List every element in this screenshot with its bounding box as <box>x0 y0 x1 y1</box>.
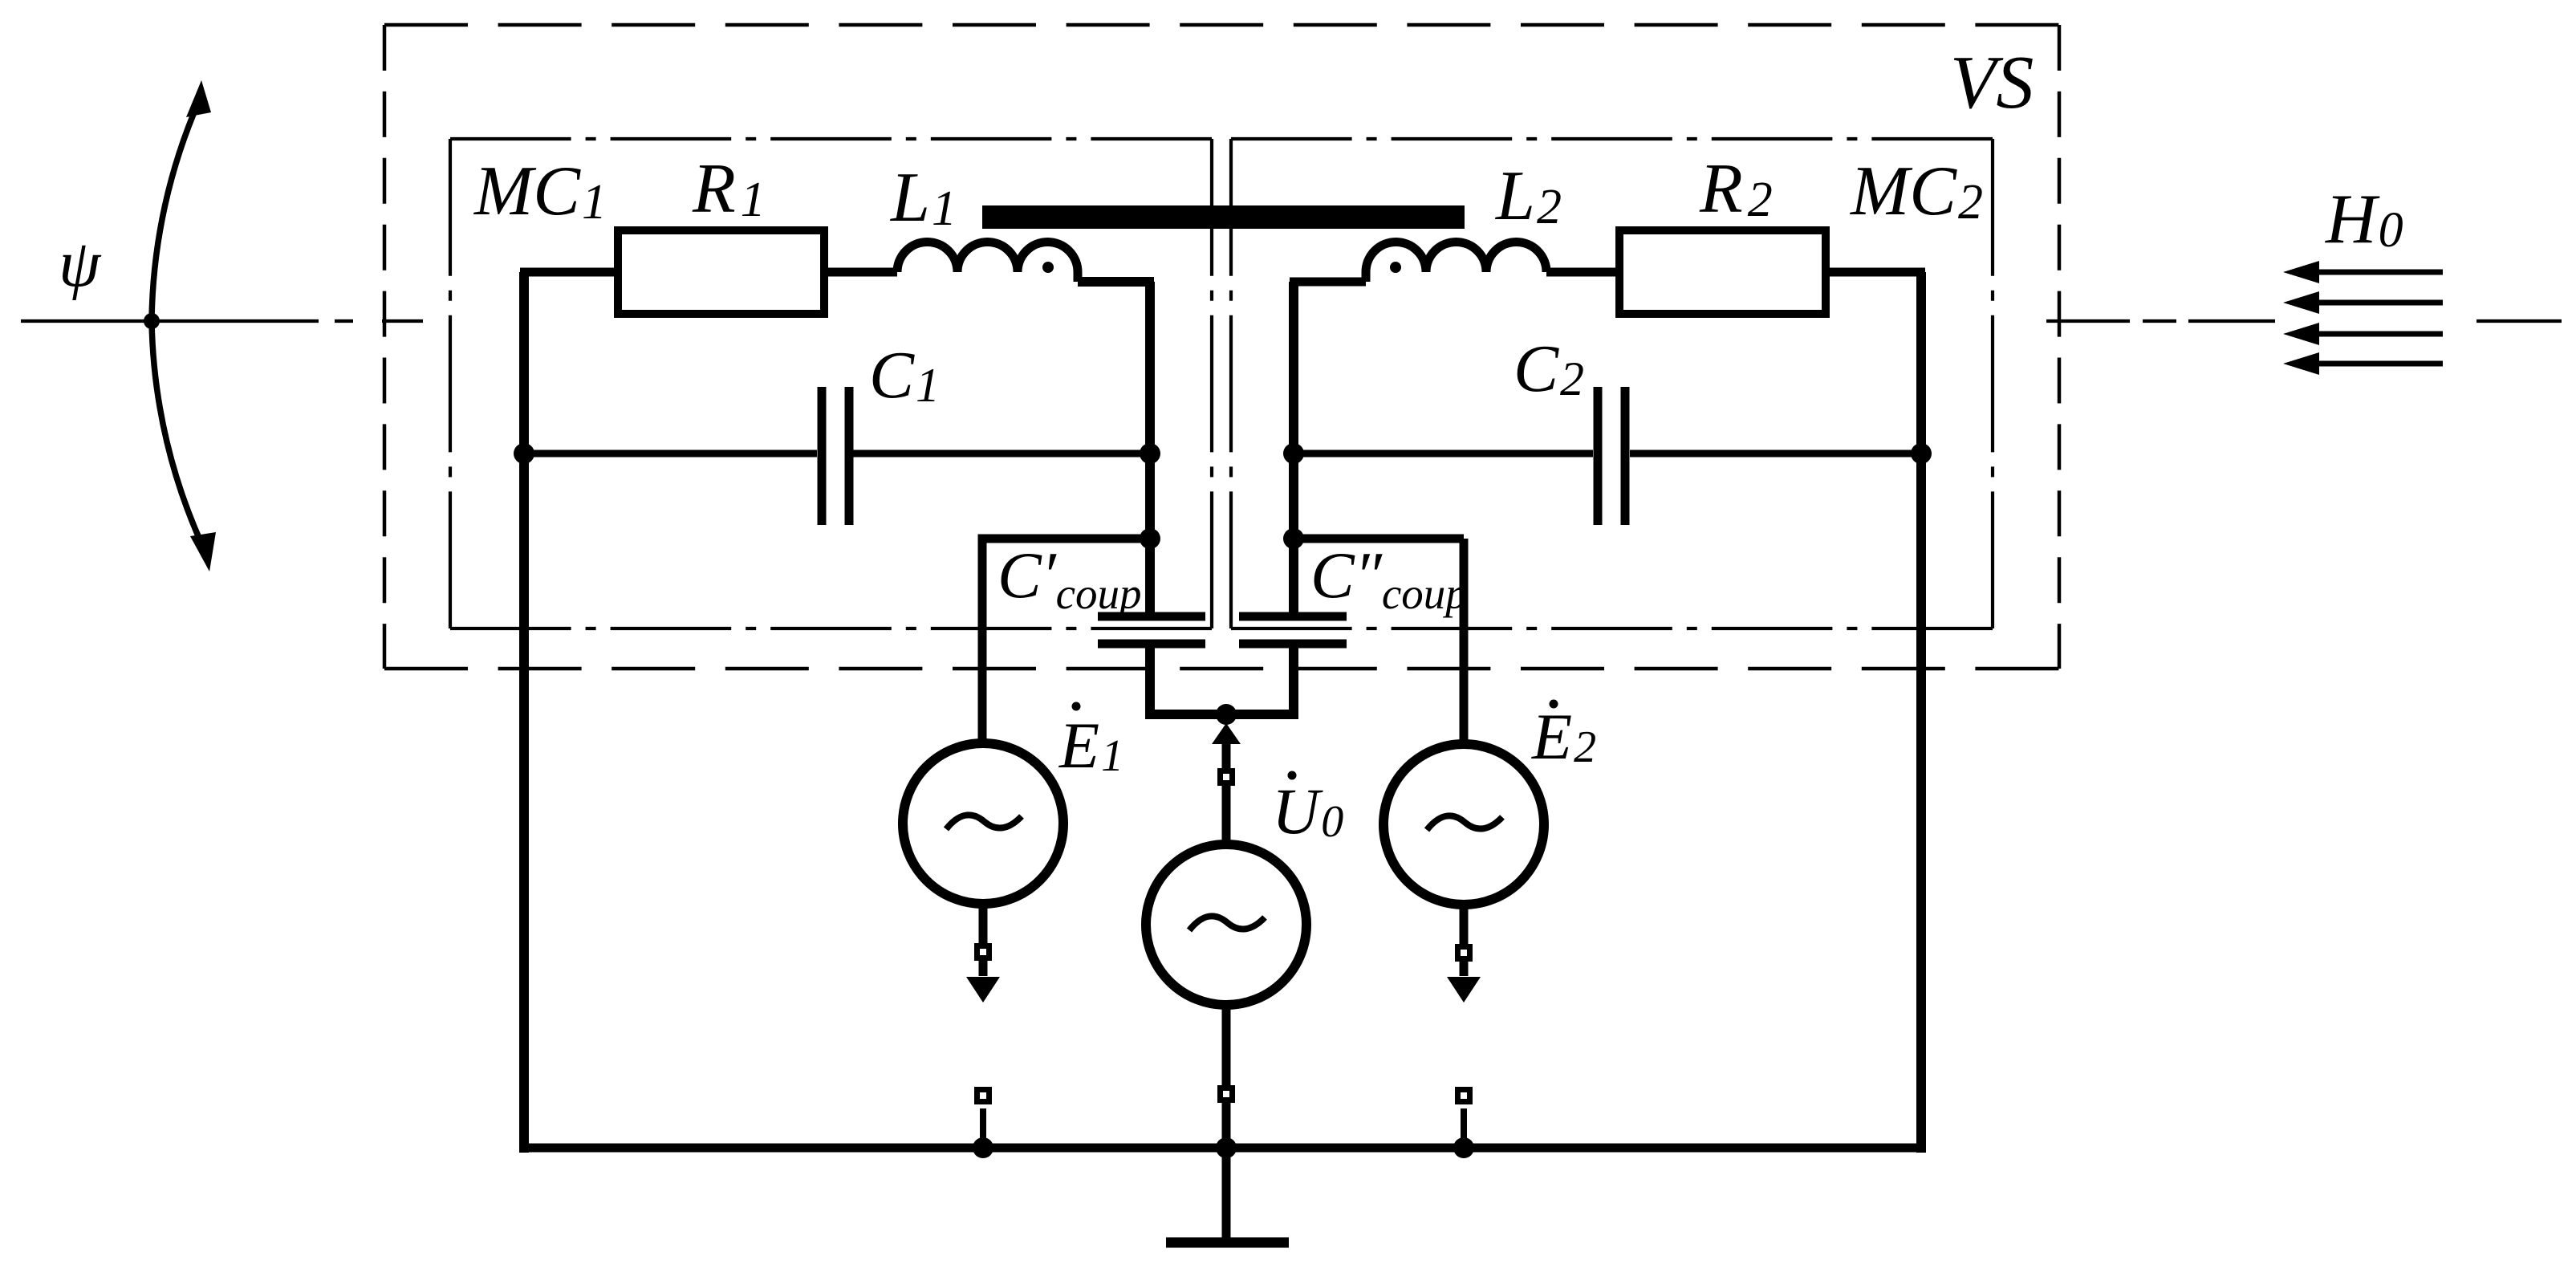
E2 top lead <box>1460 539 1469 744</box>
capacitor C'coup <box>1098 616 1205 644</box>
capacitor C2 <box>1294 450 1921 458</box>
psi arrow heads <box>186 80 216 571</box>
coupling bar (rotor plate) <box>982 205 1465 229</box>
MC2 dash-dot box <box>1231 139 1993 628</box>
wire: L2 to R2 <box>1546 268 1619 277</box>
wire: center vertical from L2 <box>1289 282 1298 617</box>
svg-text:VS: VS <box>1950 41 2034 124</box>
capacitor C''coup <box>1239 616 1347 644</box>
U0 top lead with arrow to junction <box>1222 732 1231 844</box>
psi curved double arrow <box>152 96 207 555</box>
wire: top-left horizontal to R1 <box>520 268 618 277</box>
resistor R1 <box>618 230 824 314</box>
VS dashed enclosure box <box>384 25 2059 669</box>
wire: left outer vertical <box>519 272 529 1153</box>
E1 bottom lead with connector and arrow <box>979 904 988 976</box>
wire: R1 to L1 <box>824 268 897 277</box>
bottom rail wire <box>519 1144 1926 1153</box>
MC1 dash-dot box <box>450 139 1212 628</box>
ground <box>1222 1148 1231 1238</box>
capacitor C1 <box>524 450 1150 458</box>
wire: R2 to right outer wire <box>1826 268 1925 277</box>
L1 polarity dot <box>1042 262 1054 273</box>
L2 polarity dot <box>1390 262 1401 273</box>
U0 bottom lead <box>1222 1005 1231 1148</box>
source U0 <box>1146 844 1306 1005</box>
node: center junction above U0 <box>1216 704 1237 725</box>
source E1 <box>903 743 1063 904</box>
E2 bottom lead with connector and arrow <box>1460 905 1469 976</box>
resistor R2 <box>1619 230 1826 314</box>
H0 arrow heads <box>2283 261 2319 375</box>
wire: branch junction to E1 <box>982 539 1150 739</box>
node dots right circuit <box>1283 443 1304 464</box>
E2 rail connector square <box>1458 1090 1470 1102</box>
node dots on rail <box>973 1137 993 1158</box>
svg-text:ψ: ψ <box>59 226 102 301</box>
H0 field arrows <box>2315 272 2443 364</box>
wire: branch junction to E2 <box>1294 535 1464 543</box>
inductor L2 <box>1366 242 1546 283</box>
wire: L1 to down wire <box>1078 282 1154 617</box>
source E2 <box>1383 744 1544 905</box>
E1 top lead <box>979 739 988 743</box>
node: axis pivot dot <box>144 313 160 329</box>
wire: right outer vertical <box>1916 272 1926 1153</box>
node dots left circuit <box>514 443 534 464</box>
E1 rail connector square <box>977 1090 989 1102</box>
horizontal rotation axis dash line <box>21 319 2562 323</box>
inductor L1 <box>897 242 1078 283</box>
